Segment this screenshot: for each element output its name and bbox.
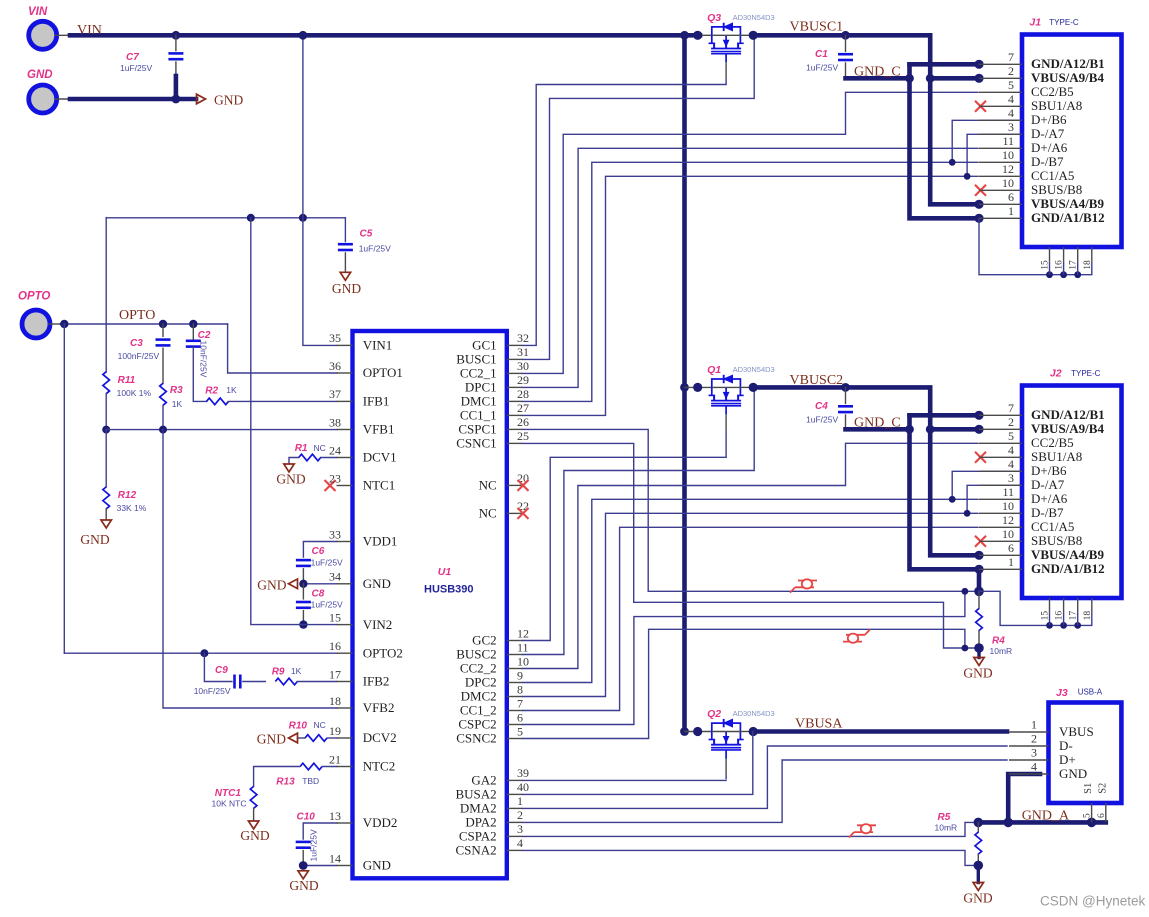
junction VFB1 tap: [102, 426, 110, 434]
svg-text:USB-A: USB-A: [1078, 688, 1103, 697]
svg-text:DCV1: DCV1: [363, 450, 397, 465]
svg-text:GND: GND: [257, 577, 286, 592]
svg-text:CSNC1: CSNC1: [456, 436, 496, 451]
junction OPTO/vert: [60, 320, 68, 328]
J2 pin 1 GND/A1/B12: [979, 555, 1105, 576]
svg-text:CC2_2: CC2_2: [460, 661, 497, 676]
svg-text:D+/B6: D+/B6: [1031, 463, 1067, 478]
svg-text:OPTO2: OPTO2: [363, 645, 403, 660]
wire R2 to IFB1: [229, 400, 338, 402]
wire DMA2 to J3: [523, 746, 1008, 808]
wire OPTO vertical: [63, 324, 65, 653]
wire GC1 to Q3 gate: [523, 85, 727, 346]
junction R5 bottom: [974, 861, 984, 871]
junction J1 pin entry r0: [974, 60, 983, 69]
svg-text:2: 2: [517, 808, 523, 822]
wire C1 bottom lead: [845, 63, 847, 78]
J2 shield pin 17: [1069, 598, 1079, 625]
wire VDD1 link: [303, 542, 337, 558]
svg-text:6: 6: [1008, 541, 1014, 555]
svg-text:OPTO1: OPTO1: [363, 365, 403, 380]
svg-text:VIN2: VIN2: [363, 617, 393, 632]
svg-text:1uF/25V: 1uF/25V: [359, 244, 391, 254]
wire C2-R2 link: [193, 347, 206, 402]
svg-text:Q2: Q2: [707, 708, 721, 720]
junction trunk/Q2: [680, 727, 689, 736]
svg-text:10: 10: [1002, 499, 1014, 513]
pin 19 DCV2: [329, 724, 397, 745]
pin 1 DMA2: [460, 794, 523, 815]
junction Q1 drain: [749, 383, 758, 392]
J3 shield pin 6: [1097, 803, 1107, 822]
junction J1 pin entry r11: [974, 214, 983, 223]
wire VBUSC2 to pin2: [930, 427, 979, 432]
junction J1 D-: [964, 173, 971, 180]
pin 12 GC2: [472, 626, 529, 647]
pin 26 CSPC1: [458, 415, 529, 436]
svg-text:CC1_2: CC1_2: [460, 703, 497, 718]
svg-text:3: 3: [1008, 120, 1014, 134]
wire VBUSC1 to pin2: [930, 76, 979, 81]
svg-text:1: 1: [1008, 204, 1014, 218]
svg-text:16: 16: [329, 639, 341, 653]
wire C10 bottom lead: [302, 851, 304, 866]
svg-text:C5: C5: [360, 229, 373, 240]
wire J1 shield bus: [979, 218, 1092, 274]
J1 pin 10 D-/B7: [979, 148, 1064, 169]
svg-text:100nF/25V: 100nF/25V: [118, 351, 160, 361]
svg-text:4: 4: [1008, 443, 1014, 457]
pin 15 VIN2: [329, 610, 392, 631]
svg-text:3: 3: [1008, 471, 1014, 485]
J1 shield pin 17: [1069, 247, 1079, 275]
svg-text:GC2: GC2: [472, 633, 497, 648]
junction Q3 source: [693, 31, 702, 40]
junction R4 bottom: [974, 643, 984, 653]
wire GA2 to Q2 gate: [523, 779, 727, 781]
J1 pin 6 VBUS/A4/B9: [979, 190, 1104, 211]
J1 shield pin 18: [1083, 247, 1093, 275]
svg-text:GND/A12/B1: GND/A12/B1: [1031, 56, 1105, 71]
J2 pin 12 CC1/A5: [979, 513, 1074, 534]
svg-text:R2: R2: [205, 386, 218, 397]
wire VFB1 line: [106, 429, 337, 431]
wire R5 top lead: [977, 822, 979, 832]
svg-text:12: 12: [1002, 162, 1014, 176]
J2 pin 6 VBUS/A4/B9: [979, 541, 1104, 562]
wire GND_C to pin7: [910, 62, 980, 67]
svg-text:BUSA2: BUSA2: [456, 787, 497, 802]
svg-text:17: 17: [329, 667, 341, 681]
svg-text:8: 8: [517, 682, 523, 696]
wire DMC2 to J2 D-/B7: [523, 513, 979, 696]
pin 28 DMC1: [461, 387, 529, 408]
svg-text:NTC2: NTC2: [363, 759, 396, 774]
svg-text:VBUSC2: VBUSC2: [790, 373, 844, 388]
svg-text:R9: R9: [272, 667, 285, 678]
svg-text:2: 2: [1008, 415, 1014, 429]
pin 6 CSPC2: [458, 710, 523, 731]
J3 pin 1 VBUS: [1009, 718, 1094, 739]
svg-text:GND_C: GND_C: [854, 65, 901, 80]
wire CSNC1 sense line: [523, 443, 980, 648]
wire J2 gnd to R4: [977, 569, 982, 591]
svg-text:Q1: Q1: [707, 364, 721, 376]
J1 pin 4 D+/B6: [979, 106, 1067, 127]
capacitor C8: [296, 589, 343, 610]
svg-text:22: 22: [517, 499, 529, 513]
svg-text:GA2: GA2: [471, 773, 496, 788]
wire C9 drop: [204, 653, 232, 681]
junction OPTO/C3: [159, 320, 167, 328]
svg-text:5: 5: [1008, 429, 1014, 443]
svg-text:S1: S1: [1083, 783, 1094, 794]
wire CSPA2 sense: [523, 822, 975, 836]
wire R10 left lead: [298, 737, 306, 739]
svg-text:CC1_1: CC1_1: [460, 408, 497, 423]
wire C4 bottom lead: [845, 415, 847, 429]
junction CSPC sense: [962, 588, 969, 595]
junction OPTO2/C9: [200, 649, 208, 657]
pin 16 OPTO2: [329, 639, 403, 660]
J1 shield pin 15: [1041, 247, 1051, 275]
junction R4 top: [974, 587, 984, 597]
svg-text:GC1: GC1: [472, 338, 497, 353]
svg-text:CSNA2: CSNA2: [456, 843, 497, 858]
junction GND pin34: [299, 580, 307, 588]
svg-text:C10: C10: [297, 812, 316, 823]
pin 10 CC2_2: [460, 654, 529, 675]
J1 pin 10 SBUS/B8: [979, 176, 1082, 197]
svg-text:C3: C3: [130, 338, 143, 349]
svg-text:4: 4: [1008, 106, 1014, 120]
svg-text:GND: GND: [332, 281, 361, 296]
wire R4 bottom lead: [978, 631, 980, 649]
resistor R12: [103, 487, 147, 513]
svg-text:CC1/A5: CC1/A5: [1031, 168, 1074, 183]
svg-text:37: 37: [329, 387, 341, 401]
junction VBUSC2/C4: [841, 383, 850, 392]
wire R9 to IFB2: [297, 681, 337, 683]
J2 pin 10 SBUS/B8: [979, 527, 1082, 548]
junction GND/C7: [172, 95, 181, 104]
resistor NTC1: [212, 786, 257, 808]
svg-text:VBUSA: VBUSA: [795, 717, 843, 732]
wire R4 top lead: [978, 591, 980, 608]
svg-text:D+: D+: [1059, 752, 1076, 767]
pin 7 CC1_2: [460, 696, 523, 717]
svg-text:11: 11: [517, 640, 529, 654]
wire VBUSA: [753, 729, 1007, 734]
resistor R2: [205, 385, 237, 405]
svg-text:10mR: 10mR: [990, 646, 1013, 656]
wire CC2_1 to J1: [523, 92, 979, 373]
svg-text:C7: C7: [126, 52, 139, 63]
svg-text:DPC1: DPC1: [465, 380, 497, 395]
svg-text:17: 17: [1069, 260, 1079, 270]
svg-text:R12: R12: [118, 490, 137, 501]
junction GND_C J2: [905, 425, 914, 434]
svg-text:D-/A7: D-/A7: [1031, 126, 1065, 141]
J2 pin 4 D+/B6: [979, 457, 1067, 478]
svg-text:TYPE-C: TYPE-C: [1071, 369, 1101, 378]
svg-text:10nF/25V: 10nF/25V: [199, 341, 209, 378]
connector J1 body: [1022, 35, 1122, 248]
resistor R10: [289, 720, 327, 741]
pin 8 DMC2: [461, 682, 523, 703]
junction trunk/Q1: [680, 383, 689, 392]
svg-text:35: 35: [329, 331, 341, 345]
svg-text:GND_C: GND_C: [854, 416, 901, 431]
ground GND (C10): [289, 871, 318, 893]
J2 pin 10 D-/B7: [979, 499, 1064, 520]
junction J2 pin entry r11: [974, 565, 983, 574]
svg-text:TYPE-C: TYPE-C: [1049, 18, 1079, 27]
wire C7 bottom lead: [175, 62, 177, 77]
svg-text:VBUS/A9/B4: VBUS/A9/B4: [1031, 70, 1104, 85]
svg-text:DMA2: DMA2: [460, 801, 497, 816]
no-connect J2 SBU1: [975, 452, 986, 463]
ground GND (top): [197, 92, 244, 107]
J1 pin 7 GND/A12/B1: [979, 50, 1105, 71]
svg-text:7: 7: [1008, 50, 1014, 64]
capacitor C5: [338, 229, 391, 254]
svg-text:VBUSC1: VBUSC1: [790, 20, 844, 35]
wire Q3 right stub: [740, 34, 753, 36]
wire VIN branch: [106, 217, 345, 219]
wire J2 shield bus: [979, 591, 1092, 625]
wire R1 left lead: [289, 458, 299, 464]
svg-text:VIN: VIN: [77, 23, 102, 38]
svg-text:NC: NC: [314, 443, 326, 453]
wire GC2 to Q1 gate: [523, 457, 727, 640]
resistor R9: [272, 666, 302, 685]
J3 pin 3 D+: [1009, 746, 1076, 767]
svg-text:OPTO: OPTO: [18, 291, 50, 303]
svg-text:VBUS: VBUS: [1059, 724, 1094, 739]
svg-text:BUSC2: BUSC2: [456, 647, 496, 662]
svg-text:14: 14: [329, 851, 341, 865]
wire R11 bottom lead: [105, 394, 107, 430]
ground GND (R10): [257, 732, 298, 747]
junction R5 top: [974, 818, 984, 828]
svg-text:26: 26: [517, 415, 529, 429]
junction J1 pin entry r1: [974, 74, 983, 83]
ground GND (C5): [332, 272, 361, 296]
junction J2 shield 1049.5: [1046, 622, 1053, 629]
junction Q2 drain: [749, 727, 758, 736]
svg-text:40: 40: [517, 780, 529, 794]
junction J2 shield 1077.7: [1074, 622, 1081, 629]
svg-text:10: 10: [517, 654, 529, 668]
pin 27 CC1_1: [460, 401, 529, 422]
capacitor C7: [120, 52, 183, 73]
svg-text:6: 6: [1008, 190, 1014, 204]
junction VIN2 feed: [299, 620, 307, 628]
junction CSNC sense: [962, 645, 969, 652]
pin 29 DPC1: [465, 373, 529, 394]
svg-text:GND/A12/B1: GND/A12/B1: [1031, 407, 1105, 422]
svg-text:10mR: 10mR: [935, 823, 958, 833]
port VIN: [28, 6, 57, 49]
capacitor C9: [194, 665, 241, 696]
wire GND_C vertical J1: [910, 64, 980, 218]
svg-text:CC1/A5: CC1/A5: [1031, 519, 1074, 534]
svg-text:34: 34: [329, 570, 341, 584]
svg-text:5: 5: [517, 724, 523, 738]
J1 pin 12 CC1/A5: [979, 162, 1074, 183]
svg-text:SBUS/B8: SBUS/B8: [1031, 182, 1082, 197]
pin 18 VFB2: [329, 694, 394, 715]
wire DMC1 to J1 D-/B7: [523, 162, 979, 401]
wire OPTO1 link: [228, 324, 337, 373]
svg-text:19: 19: [329, 724, 341, 738]
svg-text:1uF/25V: 1uF/25V: [309, 829, 319, 861]
port OPTO: [18, 291, 50, 339]
wire Q1 left stub: [685, 386, 712, 388]
pin 9 DPC2: [465, 668, 523, 689]
J1 pin 3 D-/A7: [979, 120, 1065, 141]
svg-text:27: 27: [517, 401, 529, 415]
wire VBUSC1: [753, 35, 979, 204]
svg-text:33: 33: [329, 527, 341, 541]
svg-text:TBD: TBD: [302, 776, 319, 786]
junction J1 shield 1063.6: [1060, 271, 1067, 278]
junction GND_A/shield: [1087, 818, 1097, 828]
pin 21 NTC2: [329, 752, 395, 773]
J2 pin 2 VBUS/A9/B4: [979, 415, 1104, 436]
wire C5 top lead: [344, 218, 346, 242]
svg-text:DPC2: DPC2: [465, 675, 497, 690]
transistor Q3: [707, 12, 775, 85]
wire GND_A bus: [978, 820, 1106, 825]
svg-text:3: 3: [1031, 746, 1037, 760]
junction VBUSC1 pin2: [926, 74, 935, 83]
wire C7 to GND: [174, 76, 179, 99]
svg-text:11: 11: [1002, 134, 1014, 148]
svg-text:J1: J1: [1029, 17, 1041, 29]
resistor R13: [276, 763, 322, 787]
pin 25 CSNC1: [456, 429, 529, 450]
J1 pin 2 VBUS/A9/B4: [979, 64, 1104, 85]
wire J1 D+/B6 jumper: [952, 120, 1021, 162]
svg-text:C6: C6: [312, 546, 325, 557]
svg-text:6: 6: [517, 710, 523, 724]
wire CSPC2 sense line: [523, 591, 965, 724]
junction Q3 drain: [749, 31, 758, 40]
J2 shield pin 16: [1055, 598, 1065, 625]
svg-text:CSPC1: CSPC1: [458, 422, 496, 437]
svg-text:15: 15: [1041, 611, 1051, 621]
svg-text:10: 10: [1002, 176, 1014, 190]
pin 31 BUSC1: [456, 345, 529, 366]
svg-text:R5: R5: [938, 812, 951, 823]
svg-text:GND_A: GND_A: [1022, 809, 1070, 824]
J3 pin 2 D-: [1009, 732, 1073, 753]
capacitor C10: [296, 812, 316, 848]
svg-text:3: 3: [517, 822, 523, 836]
svg-text:C9: C9: [215, 665, 228, 676]
svg-text:CSPA2: CSPA2: [459, 829, 497, 844]
J2 pin 5 CC2/B5: [979, 429, 1074, 450]
junction VBUSC1/C1: [841, 31, 850, 40]
wire VBUSC2: [753, 387, 979, 555]
wire BUSC1 sense: [523, 35, 755, 359]
wire Q2 right stub: [740, 731, 753, 733]
svg-text:1uF/25V: 1uF/25V: [806, 63, 838, 73]
svg-text:1K: 1K: [226, 385, 237, 395]
svg-text:DPA2: DPA2: [465, 815, 496, 830]
no-connect J1 SBU1: [975, 101, 986, 112]
svg-text:GND: GND: [27, 69, 53, 81]
junction J2 D+: [949, 496, 956, 503]
pin 37 IFB1: [329, 387, 389, 408]
svg-text:16: 16: [1055, 260, 1065, 270]
svg-text:CSNC2: CSNC2: [456, 731, 496, 746]
svg-text:GND: GND: [963, 666, 992, 681]
no-connect J2 SBUS: [975, 536, 986, 547]
wire BUSC2 sense: [523, 387, 755, 654]
svg-text:S2: S2: [1098, 783, 1109, 794]
svg-text:BUSC1: BUSC1: [456, 352, 496, 367]
junction J1 shield 1049.5: [1046, 271, 1053, 278]
J2 pin 4 SBU1/A8: [979, 443, 1082, 464]
svg-text:1K: 1K: [291, 666, 302, 676]
transistor Q2: [707, 708, 775, 779]
wire R5 bottom lead: [977, 854, 979, 865]
svg-text:IFB1: IFB1: [363, 394, 390, 409]
svg-text:13: 13: [329, 809, 341, 823]
svg-text:4: 4: [517, 836, 523, 850]
pin 17 IFB2: [329, 667, 389, 688]
svg-text:R11: R11: [118, 375, 136, 386]
svg-text:1: 1: [517, 794, 523, 808]
wire R13 right lead: [323, 766, 337, 768]
no-connect pin20: [518, 480, 529, 491]
svg-text:VDD1: VDD1: [363, 534, 398, 549]
svg-text:5: 5: [1008, 78, 1014, 92]
ground GND (pin34): [257, 577, 297, 592]
J2 pin 11 D+/A6: [979, 485, 1068, 506]
wire VDD2 link: [303, 823, 337, 839]
resistor R5: [935, 812, 982, 854]
J2 pin 3 D-/A7: [979, 471, 1065, 492]
svg-text:7: 7: [1008, 401, 1014, 415]
wire J1 D-/A7 jumper: [967, 134, 1021, 176]
svg-text:31: 31: [517, 345, 529, 359]
wire C7 top lead: [175, 35, 177, 50]
capacitor C4: [806, 401, 853, 425]
junction GND_A/J3: [1003, 818, 1013, 828]
wire CSPC1 sense line: [523, 429, 980, 591]
pin 22 NC: [479, 499, 529, 520]
svg-text:GND: GND: [240, 828, 269, 843]
J1 pin 4 SBU1/A8: [979, 92, 1082, 113]
svg-text:C1: C1: [815, 49, 828, 60]
svg-text:4: 4: [1008, 457, 1014, 471]
capacitor C1: [806, 49, 853, 73]
svg-text:AD30N54D3: AD30N54D3: [733, 365, 775, 374]
junction J2 pin entry r1: [974, 425, 983, 434]
pin 39 GA2: [471, 766, 529, 787]
wire Q3 left stub: [700, 34, 712, 36]
svg-text:NTC1: NTC1: [363, 478, 396, 493]
svg-text:VBUS/A4/B9: VBUS/A4/B9: [1031, 196, 1104, 211]
probe marker 2: [843, 629, 870, 642]
wire C6 bottom lead: [302, 569, 304, 584]
svg-text:4: 4: [1031, 760, 1037, 774]
wire R12 bottom lead: [105, 509, 107, 520]
